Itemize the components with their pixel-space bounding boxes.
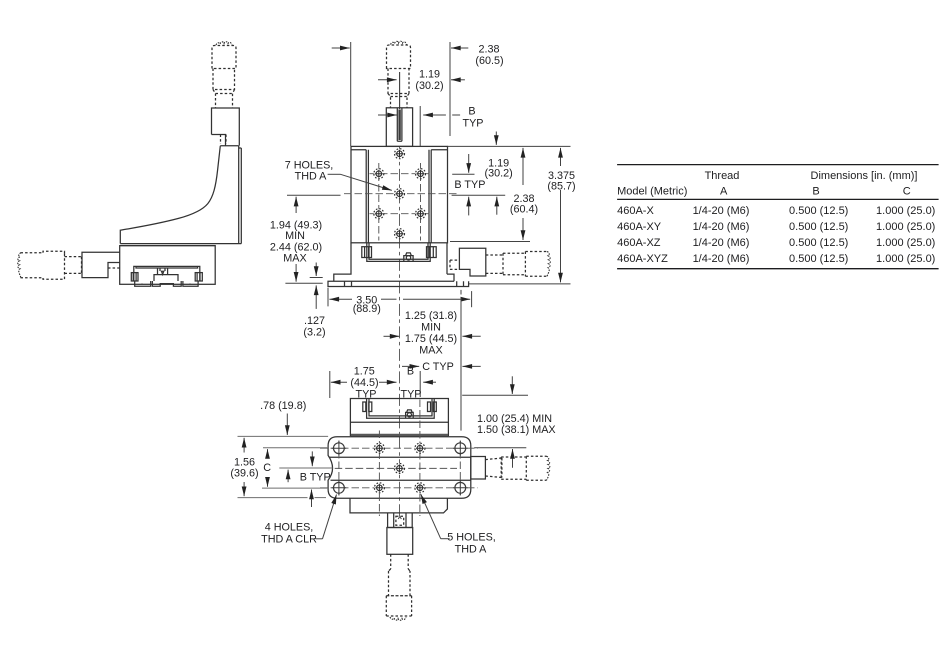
svg-text:A: A [720, 186, 728, 198]
extension: middle hole row extended left [287, 194, 341, 196]
dimension C TYP [402, 365, 419, 367]
vertical micrometer mount block, side view [212, 108, 240, 146]
main body (rounded, with finger scallop), bottom view [328, 437, 471, 499]
svg-text:MAX: MAX [283, 252, 306, 264]
svg-text:TYP: TYP [401, 388, 422, 400]
clamp assembly in base, side view [131, 266, 202, 286]
svg-text:1.50 (38.1) MAX: 1.50 (38.1) MAX [477, 424, 556, 436]
svg-text:B: B [468, 106, 475, 118]
extension: middle hole row extended right [452, 194, 506, 196]
column centerlines, bottom view [338, 441, 340, 496]
dimension 1.19 (30.2) right [495, 132, 497, 145]
svg-text:1/4-20 (M6): 1/4-20 (M6) [693, 253, 750, 265]
svg-text:MAX: MAX [419, 344, 442, 356]
micrometer spindle seen through thimble [399, 72, 401, 109]
svg-text:1.25 (31.8): 1.25 (31.8) [405, 310, 457, 322]
svg-text:C TYP: C TYP [422, 361, 454, 373]
svg-text:1.000 (25.0): 1.000 (25.0) [876, 221, 935, 233]
body channel lines [330, 457, 471, 480]
extension line, plate left edge extended up [350, 42, 352, 146]
dimension B TYP (left of body) [311, 451, 313, 466]
7 threaded holes THD A, front view [374, 149, 426, 239]
svg-text:1.75: 1.75 [354, 366, 375, 378]
svg-text:B TYP: B TYP [300, 472, 331, 484]
svg-text:(3.2): (3.2) [303, 326, 325, 338]
micrometer spindle hidden lines into bracket [221, 135, 227, 145]
svg-text:1/4-20 (M6): 1/4-20 (M6) [693, 205, 750, 217]
left extension lines, bottom view [238, 435, 329, 437]
extension: base bottom extended left [285, 282, 322, 284]
svg-text:.127: .127 [304, 315, 325, 327]
svg-text:Dimensions [in. (mm)]: Dimensions [in. (mm)] [811, 170, 918, 182]
svg-text:460A-XYZ: 460A-XYZ [617, 253, 668, 265]
L-bracket body, side view [120, 146, 238, 244]
threaded hole center [394, 463, 404, 473]
dimension 1.19 (30.2) top [378, 79, 397, 81]
svg-text:Model (Metric): Model (Metric) [617, 186, 687, 198]
svg-text:B: B [407, 366, 414, 378]
svg-text:THD A: THD A [455, 544, 488, 556]
left micrometer (hidden/dashed), side view [18, 251, 82, 279]
svg-text:460A-X: 460A-X [617, 205, 654, 217]
extension line for 1.25/1.75 (right) [460, 290, 462, 431]
svg-text:4 HOLES,: 4 HOLES, [265, 522, 314, 534]
dimension B TYP (right side of plate) [468, 154, 470, 173]
row centerlines, bottom view [320, 447, 478, 449]
threaded hole top-left [374, 443, 384, 453]
X-axis micrometer mount block, front view [459, 248, 485, 276]
svg-text:THD A: THD A [295, 171, 328, 183]
svg-text:1/4-20 (M6): 1/4-20 (M6) [693, 237, 750, 249]
svg-text:(30.2): (30.2) [415, 80, 443, 92]
corner hole TR [453, 441, 468, 456]
spindle slot and spindle [397, 108, 402, 141]
svg-text:(60.5): (60.5) [475, 55, 503, 67]
svg-text:0.500 (12.5): 0.500 (12.5) [789, 205, 848, 217]
svg-text:1/4-20 (M6): 1/4-20 (M6) [693, 221, 750, 233]
extension: upper hole row short right [452, 173, 474, 175]
svg-text:(88.9): (88.9) [353, 303, 381, 315]
svg-text:1.000 (25.0): 1.000 (25.0) [876, 205, 935, 217]
note 1.00 (25.4) MIN / 1.50 (38.1) MAX [462, 394, 528, 396]
hole row4 left [374, 209, 384, 219]
corner hole BR [453, 481, 468, 496]
svg-text:(39.6): (39.6) [230, 467, 258, 479]
X micrometer mount block, bottom view [471, 457, 486, 480]
extension: plate top edge extended right [448, 145, 571, 147]
svg-text:0.500 (12.5): 0.500 (12.5) [789, 221, 848, 233]
extension: base plate step, left [310, 277, 323, 279]
table top rule [617, 164, 939, 166]
svg-text:0.500 (12.5): 0.500 (12.5) [789, 237, 848, 249]
svg-text:1.75 (44.5): 1.75 (44.5) [405, 333, 457, 345]
4 corner holes THD A CLR [332, 441, 468, 495]
svg-text:C: C [263, 462, 271, 474]
vertical micrometer thimble (hidden/dashed), front view [387, 41, 411, 107]
table header rule [617, 198, 939, 200]
dimension 2.38 (60.5) top [451, 47, 468, 49]
5 threaded holes THD A [374, 443, 425, 493]
arrow into left extension line [332, 47, 350, 49]
extension line, right, for 2.38/1.19 [449, 42, 451, 136]
carriage thick bottom edge [351, 434, 448, 437]
svg-text:(44.5): (44.5) [350, 377, 378, 389]
svg-text:(85.7): (85.7) [547, 180, 575, 192]
hidden spindle rectangle [450, 260, 459, 269]
carriage clamp screws [363, 402, 372, 412]
dimension B TYP (top) [378, 114, 397, 116]
svg-text:B: B [812, 186, 819, 198]
carriage block (seen from below), bottom view [350, 399, 448, 436]
svg-text:TYP: TYP [463, 118, 484, 130]
lower clamp section, front view [362, 243, 436, 262]
svg-text:1.19: 1.19 [419, 69, 440, 81]
dimension 2.38 (60.4) right [522, 148, 524, 185]
main plate, front view [351, 146, 448, 242]
svg-text:(30.2): (30.2) [484, 168, 512, 180]
svg-text:.78 (19.8): .78 (19.8) [260, 400, 306, 412]
dimension 1.75 (44.5) TYP [331, 381, 347, 383]
vertical micrometer thimble (hidden/dashed), side view [212, 42, 236, 108]
dimension 3.50 (88.9) [329, 298, 352, 300]
base of front view with feet [328, 243, 469, 287]
dimension 3.375 (85.7) right [560, 148, 562, 166]
svg-text:THD A CLR: THD A CLR [261, 534, 317, 546]
X-axis micrometer (hidden/dashed), front view [486, 252, 551, 277]
hole row5 center [395, 229, 405, 239]
dimension .127 (3.2) [315, 263, 317, 277]
hole center [395, 189, 405, 199]
dimension 1.25 (31.8) MIN 1.75 (44.5) MAX [384, 335, 400, 337]
svg-text:B TYP: B TYP [454, 179, 485, 191]
dimension 1.94 (49.3) MIN 2.44 (62.0) MAX [295, 197, 297, 213]
X micrometer (hidden/dashed), bottom view [485, 456, 549, 480]
corner hole BL [332, 481, 347, 496]
svg-text:Thread: Thread [705, 170, 740, 182]
threaded hole bottom-right [415, 483, 425, 493]
svg-text:TYP: TYP [356, 388, 377, 400]
svg-text:2.38: 2.38 [478, 44, 499, 56]
svg-text:5 HOLES,: 5 HOLES, [447, 532, 496, 544]
svg-text:1.000 (25.0): 1.000 (25.0) [876, 237, 935, 249]
svg-text:460A-XY: 460A-XY [617, 221, 662, 233]
bracket bottom / carriage interface lines [120, 244, 242, 246]
left micrometer mount block, side view [82, 252, 120, 277]
table bottom rule [617, 268, 939, 270]
threaded hole bottom-left [374, 483, 384, 493]
extension: base bottom extended right [469, 283, 571, 285]
dimension B TYP (carriage) [423, 381, 436, 383]
svg-text:0.500 (12.5): 0.500 (12.5) [789, 253, 848, 265]
svg-text:(60.4): (60.4) [510, 203, 538, 215]
svg-text:460A-XZ: 460A-XZ [617, 237, 661, 249]
vertical micrometer mount block, front view [386, 108, 412, 147]
hole row1 center [395, 149, 405, 159]
Y micrometer (hidden/dashed), bottom view [386, 554, 411, 620]
Y micrometer mount, bottom view [388, 513, 413, 528]
corner hole TL [332, 441, 347, 456]
hole row4 right [416, 209, 426, 219]
svg-text:C: C [903, 186, 911, 198]
clamp feet, side view [135, 281, 198, 286]
hole row2 left [374, 169, 384, 179]
threaded hole top-right [415, 443, 425, 453]
svg-text:1.000 (25.0): 1.000 (25.0) [876, 253, 935, 265]
carriage clamp channel [367, 399, 435, 419]
extension lines above carriage [329, 371, 331, 398]
svg-text:MIN: MIN [421, 321, 441, 333]
B line extended above plate [419, 106, 421, 146]
extension: plate bottom extended right [450, 241, 530, 243]
lower plate under body, bottom view [350, 498, 447, 513]
carriage center screw [406, 410, 414, 418]
dimension C [267, 449, 269, 457]
base block, side view [120, 246, 216, 285]
top corner notches and slide rails [351, 149, 448, 151]
hidden spindle line into base [108, 267, 120, 269]
vertical center line (axis through front and bottom views) [399, 146, 401, 434]
dimension 1.56 (39.6) [243, 438, 245, 453]
hole centerlines, front view [344, 193, 457, 195]
extension lines for 3.50 [327, 288, 329, 307]
hole row2 right [416, 169, 426, 179]
